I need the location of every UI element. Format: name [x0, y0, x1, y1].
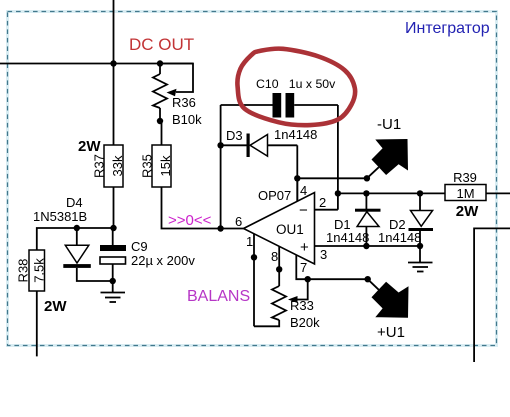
port -U1: [372, 116, 409, 175]
svg-text:4: 4: [300, 183, 307, 198]
capacitor C10: [221, 77, 338, 118]
svg-text:2W: 2W: [78, 138, 101, 155]
svg-text:1M: 1M: [456, 186, 474, 201]
potentiometer R33: [254, 279, 320, 330]
svg-text:B10k: B10k: [172, 112, 202, 127]
resistor R35: [139, 121, 173, 187]
wire -U1 stub: [367, 167, 379, 178]
potentiometer R36: [153, 60, 202, 127]
svg-text:2: 2: [319, 195, 326, 210]
pin2 net rail: [338, 192, 445, 194]
svg-text:+U1: +U1: [377, 324, 405, 341]
pin 7: [296, 255, 367, 279]
wire +U1 stub: [368, 279, 379, 290]
diode D3: [221, 127, 318, 157]
diode D4 (zener): [33, 195, 113, 281]
svg-text:R39: R39: [453, 170, 477, 185]
op-amp OU1: [244, 188, 315, 264]
svg-text:15k: 15k: [158, 155, 173, 176]
svg-text:6: 6: [235, 214, 242, 229]
svg-text:1: 1: [246, 234, 253, 249]
svg-text:>>0<<: >>0<<: [168, 212, 212, 229]
svg-text:8: 8: [271, 249, 278, 264]
svg-text:DC OUT: DC OUT: [129, 35, 194, 54]
ground (C9): [101, 293, 126, 303]
svg-text:1N5381B: 1N5381B: [33, 209, 87, 224]
annotation red circle around C10: [237, 49, 355, 126]
wire bottom-right exit: [474, 228, 510, 362]
wire R35 bottom to output node: [162, 187, 221, 229]
resistor R39: [445, 170, 486, 220]
pin 3 rail: [315, 245, 421, 247]
pin 1: [253, 234, 255, 326]
wire left net R38 top: [37, 228, 114, 250]
wire C10 right vertical to pin2: [337, 105, 339, 210]
wire R37 top lead: [113, 64, 115, 146]
wire R38 bottom stub: [36, 291, 38, 356]
svg-text:R33: R33: [290, 298, 314, 313]
svg-text:3: 3: [320, 247, 327, 262]
diode D1: [326, 190, 381, 249]
svg-text:Интегратор: Интегратор: [405, 20, 490, 37]
wire V- rail: [297, 177, 367, 179]
wire R36 wiper loop: [160, 64, 193, 93]
node output junction: [217, 225, 223, 231]
pin 6 output: [221, 228, 244, 230]
svg-text:2W: 2W: [44, 298, 67, 315]
svg-text:D3: D3: [226, 128, 243, 143]
wire R39 right exit: [486, 192, 510, 194]
svg-text:C9: C9: [131, 239, 148, 254]
svg-text:22µ x 200v: 22µ x 200v: [131, 253, 195, 268]
svg-text:7.5k: 7.5k: [31, 258, 46, 283]
svg-text:−: −: [299, 202, 308, 219]
diode D2: [378, 190, 433, 249]
node D3 cathode junction: [217, 142, 223, 148]
svg-text:OU1: OU1: [276, 222, 304, 237]
svg-text:-U1: -U1: [377, 116, 401, 133]
svg-text:B20k: B20k: [290, 315, 320, 330]
svg-text:33k: 33k: [110, 155, 125, 176]
svg-text:OP07: OP07: [258, 188, 291, 203]
ground (D2): [408, 263, 433, 272]
wire horizontal DC OUT rail: [0, 63, 193, 65]
svg-text:1n4148: 1n4148: [378, 230, 421, 245]
svg-text:1n4148: 1n4148: [326, 230, 369, 245]
node V- rail junction: [294, 175, 300, 181]
svg-text:2W: 2W: [456, 203, 479, 220]
svg-text:R36: R36: [172, 95, 196, 110]
port +U1: [372, 282, 409, 341]
svg-text:R38: R38: [15, 259, 30, 283]
svg-text:R35: R35: [139, 154, 154, 178]
svg-text:1n4148: 1n4148: [274, 127, 317, 142]
wire top vertical into DC OUT node: [113, 0, 115, 64]
pin 4: [296, 178, 298, 201]
frame: dashed boundary (decorative): [8, 12, 497, 346]
svg-text:R37: R37: [91, 154, 106, 178]
svg-text:BALANS: BALANS: [187, 288, 250, 305]
svg-text:7: 7: [300, 260, 307, 275]
svg-text:C10 1u x 50v: C10 1u x 50v: [256, 77, 336, 91]
pin 8: [278, 246, 280, 286]
capacitor C9: [100, 228, 195, 293]
wire D3 anode down to V- rail / pin4: [296, 145, 298, 201]
svg-text:+: +: [300, 239, 309, 256]
node DC OUT junction: [110, 60, 116, 66]
wire feedback left vertical: [220, 105, 222, 229]
resistor R37: [78, 138, 125, 187]
wiper wire R33: [297, 279, 308, 299]
wire D2 to ground: [419, 246, 421, 262]
svg-text:D4: D4: [66, 195, 83, 210]
resistor R38: [15, 250, 67, 315]
wire R37 bottom lead: [113, 187, 115, 228]
pin 2: [315, 209, 338, 211]
